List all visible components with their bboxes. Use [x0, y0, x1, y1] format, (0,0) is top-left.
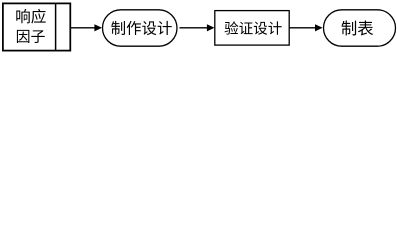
text: 验证设计	[225, 21, 239, 34]
process box: 验证设计	[215, 11, 289, 46]
terminator: 制表	[324, 10, 396, 46]
box: 响应因子 table	[3, 3, 70, 50]
text: 因子	[17, 30, 29, 43]
wire: connector 2	[180, 27, 209, 29]
text: 制表	[342, 21, 357, 36]
wire: connector 3	[289, 27, 316, 29]
text: 响应	[16, 9, 29, 23]
divider line	[55, 3, 57, 50]
arrowhead 3	[315, 24, 323, 31]
arrowhead 1	[94, 24, 102, 31]
text: 制作设计	[111, 21, 125, 35]
arrowhead 2	[207, 24, 215, 31]
terminator: 制作设计	[103, 10, 178, 46]
wire: connector 1	[71, 27, 96, 29]
